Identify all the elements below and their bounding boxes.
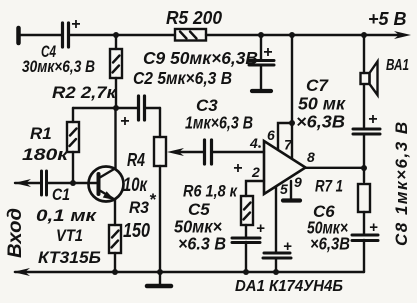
wire C8 to rail (363, 240, 365, 272)
svg-text:7: 7 (284, 137, 293, 153)
wire R3 bottom (114, 253, 116, 272)
node A R1-R2-C2-collector (113, 105, 119, 111)
transistor VT1 emitter arrow (103, 191, 115, 200)
wire collector (114, 108, 116, 169)
capacitor C6 (264, 252, 290, 255)
wire output pin8 (305, 167, 364, 169)
capacitor C7 (353, 128, 380, 131)
wire C7 to node out (363, 134, 365, 182)
svg-text:×6.3 В: ×6.3 В (178, 234, 226, 254)
svg-text:6: 6 (267, 127, 275, 143)
svg-text:+5 В: +5 В (368, 9, 407, 29)
svg-text:R5 200: R5 200 (166, 8, 222, 28)
arrow input (14, 179, 31, 187)
arrow bottom rail (13, 268, 30, 276)
wire base (47, 182, 97, 184)
resistor R6 (241, 196, 253, 225)
resistor R2 (110, 49, 122, 78)
wire top rail +5V (19, 34, 61, 36)
svg-text:*: * (149, 190, 157, 209)
wire C9 branch (260, 35, 262, 59)
wire R1 top (73, 107, 116, 109)
svg-text:+: + (369, 219, 378, 236)
svg-text:R2 2,7к: R2 2,7к (52, 83, 118, 102)
wire bottom rail (15, 271, 364, 273)
wire C2 to R4 (145, 107, 160, 109)
node base C1-R1 (70, 180, 76, 186)
svg-text:R1: R1 (30, 124, 52, 143)
junction rail-R3 (112, 269, 118, 275)
resistor R5 (175, 29, 206, 41)
svg-text:+: + (263, 44, 272, 61)
capacitor C3 (203, 140, 206, 164)
transistor VT1 (89, 167, 124, 202)
wire input (15, 182, 40, 184)
ground bottom (159, 272, 161, 284)
svg-text:4: 4 (249, 135, 258, 151)
potentiometer R4 (154, 137, 166, 166)
arrow +5V (394, 31, 411, 39)
op-amp DA1 (264, 141, 306, 194)
svg-text:+: + (71, 16, 80, 33)
svg-text:R7 1: R7 1 (315, 178, 343, 196)
wire pin9 (290, 181, 292, 199)
junction rail-BA1 (361, 32, 367, 38)
wire speaker branch (363, 35, 365, 73)
svg-text:150: 150 (123, 220, 150, 242)
wire R7 to C8 (363, 212, 365, 234)
svg-text:+: + (120, 113, 129, 130)
resistor R7 (358, 184, 370, 212)
node output pin8-C7-R7 (361, 165, 367, 171)
wire C9 bottom (260, 65, 262, 89)
capacitor C2 (137, 96, 140, 120)
wire pins 6-7 riser (291, 35, 293, 123)
loudspeaker BA1 (361, 73, 370, 84)
svg-text:×6,3В: ×6,3В (310, 234, 350, 254)
wire pin7 (291, 123, 293, 158)
capacitor C9 (249, 59, 274, 62)
node left input terminal (16, 28, 21, 43)
wire C2 (116, 107, 137, 109)
svg-text:×6,3В: ×6,3В (296, 112, 345, 132)
svg-text:+: + (233, 160, 242, 177)
svg-text:R3: R3 (129, 198, 149, 217)
ground pin9 (283, 198, 300, 202)
svg-text:C1: C1 (52, 185, 70, 204)
wire emitter (114, 199, 116, 225)
junction rail-C9 (258, 32, 264, 38)
capacitor C1 (40, 171, 43, 195)
wire R1 bottom (72, 152, 74, 183)
wire C6 bottom (275, 258, 277, 272)
svg-text:С7: С7 (306, 76, 330, 95)
wire C3 to pin4 (212, 151, 264, 153)
wire wiper (178, 151, 203, 153)
svg-text:+: + (368, 111, 377, 128)
resistor R1 (67, 122, 79, 152)
svg-text:8: 8 (307, 149, 315, 165)
svg-text:+: + (256, 220, 265, 237)
svg-text:2: 2 (251, 164, 260, 180)
capacitor C8 (352, 234, 378, 237)
wire R4 bottom (159, 166, 161, 272)
junction rail-pins67 (289, 32, 295, 38)
svg-text:ВА1: ВА1 (386, 57, 409, 74)
junction rail-R2 (113, 32, 119, 38)
wire pin2 (246, 181, 264, 196)
junction rail-R4-ground (157, 269, 163, 275)
svg-text:10к: 10к (123, 175, 148, 196)
svg-text:С8 1мк×6,3 В: С8 1мк×6,3 В (392, 120, 411, 246)
svg-text:0,1 мк: 0,1 мк (36, 206, 98, 225)
resistor R3 (109, 225, 121, 253)
wire pin5 (275, 187, 277, 252)
wire pin6 (278, 123, 292, 149)
junction rail-C5 (243, 269, 249, 275)
svg-text:5: 5 (280, 181, 288, 197)
svg-text:1мк×6,3 В: 1мк×6,3 В (185, 113, 253, 133)
svg-text:Вход: Вход (4, 208, 26, 258)
capacitor C4 (61, 23, 64, 47)
wire R6 bottom (245, 225, 247, 237)
svg-text:КТ315Б: КТ315Б (38, 248, 101, 267)
svg-text:VT1: VT1 (56, 226, 83, 245)
svg-text:+: + (283, 238, 292, 255)
svg-text:C2 5мк×6,3 В: C2 5мк×6,3 В (133, 68, 232, 88)
capacitor C5 (232, 237, 260, 240)
wire node A (115, 78, 117, 108)
junction rail-C6 (273, 269, 279, 275)
wire speaker to C7 (363, 85, 365, 127)
svg-text:C9 50мк×6,3В: C9 50мк×6,3В (143, 48, 258, 68)
arrow wiper (167, 148, 184, 156)
svg-text:50 мк: 50 мк (298, 94, 346, 114)
wire R2 branch (115, 35, 117, 49)
svg-text:9: 9 (294, 174, 302, 190)
wire C5 bottom (245, 242, 247, 272)
svg-text:R6 1,8 к: R6 1,8 к (183, 182, 238, 201)
svg-text:180к: 180к (22, 145, 70, 164)
svg-text:DA1 К174УН4Б: DA1 К174УН4Б (235, 278, 343, 295)
svg-text:30мк×6,3 В: 30мк×6,3 В (22, 58, 95, 76)
ground C9 (252, 89, 271, 93)
svg-text:R4: R4 (127, 150, 145, 170)
node pins 6-7 (289, 120, 295, 126)
